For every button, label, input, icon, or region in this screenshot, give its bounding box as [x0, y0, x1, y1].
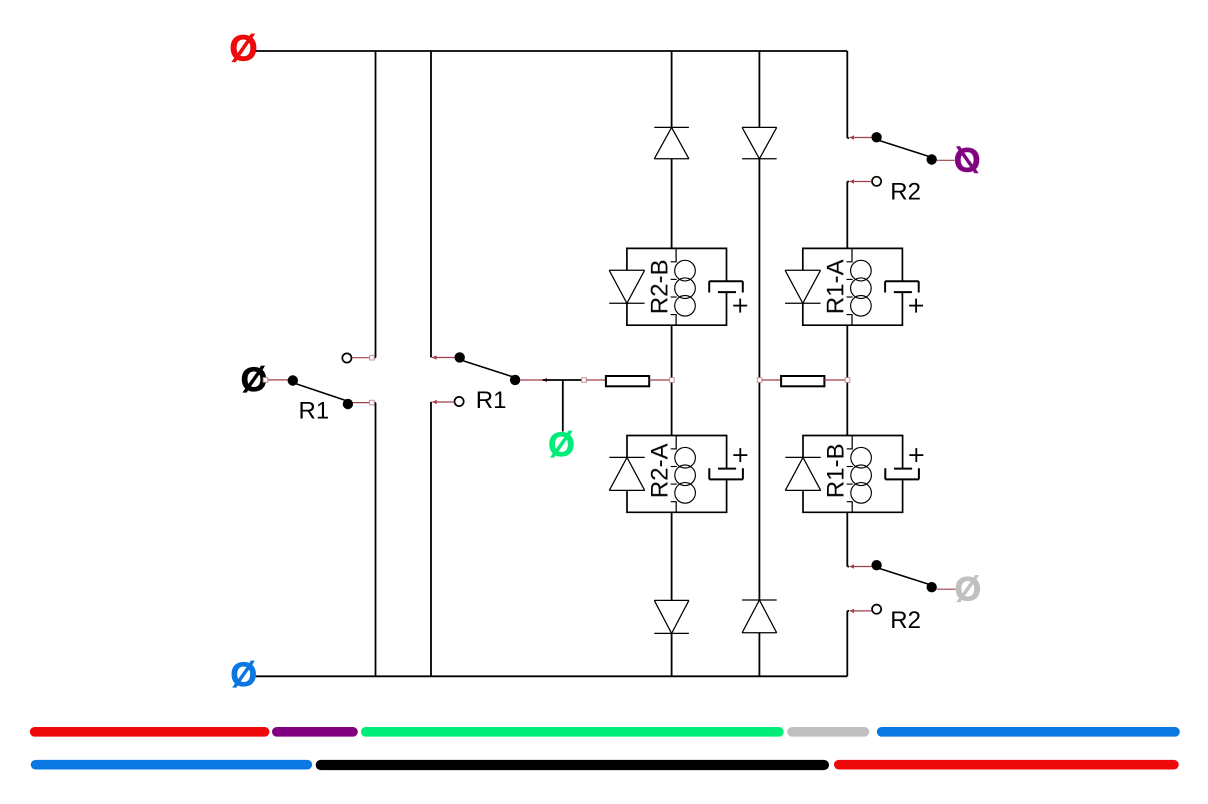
svg-text:R2-B: R2-B	[646, 259, 673, 314]
wire column E corner stub at S3 common	[847, 137, 849, 139]
svg-text:Ø: Ø	[229, 28, 257, 69]
svg-text:R2-A: R2-A	[647, 443, 674, 498]
wire junction to resistor chain	[543, 379, 585, 381]
wire column D rail to top diode	[758, 51, 760, 127]
resistor 1	[606, 376, 649, 386]
diode bottom right (pointing up)	[742, 599, 777, 601]
wire column D bottom diode to rail	[758, 633, 760, 677]
wire column E relay R1-B to switch S4	[846, 512, 848, 566]
switch S4 thrown contact	[927, 582, 937, 592]
node square on bus A lower	[370, 400, 375, 405]
wire column C bottom diode to rail	[671, 633, 673, 676]
svg-text:R1-A: R1-A	[822, 259, 849, 314]
svg-text:Ø: Ø	[955, 571, 981, 609]
node square on column C	[670, 378, 675, 383]
wire red stub resistor 2 to column E	[824, 379, 845, 381]
wire column E corner stub at S3 open contact	[847, 181, 849, 183]
relay R2-B flyback diode	[609, 269, 644, 271]
wire column E corner stub at S4 common	[847, 566, 849, 568]
wire red stub bus E to switch common (top)	[850, 135, 855, 139]
node square on column D	[757, 378, 762, 383]
legend bar blue (bottom row)	[31, 760, 312, 770]
switch S2 thrown contact	[510, 375, 520, 385]
diode top left (pointing up)	[654, 126, 689, 128]
switch S1 blade	[295, 383, 350, 402]
wire bus A upper vertical	[375, 51, 377, 358]
wire top supply rail	[256, 50, 848, 52]
legend bar gray	[787, 727, 869, 737]
relay R2-B capacitor	[709, 280, 743, 282]
relay R1-A capacitor	[885, 280, 919, 282]
wire column C relay R2-B to relay R2-A	[671, 325, 673, 435]
legend bar red (bottom row)	[834, 760, 1179, 770]
legend bar purple	[272, 727, 358, 737]
svg-text:R1-B: R1-B	[823, 443, 850, 498]
svg-text:Ø: Ø	[548, 426, 574, 464]
switch S2 blade	[462, 360, 517, 378]
relay R2-B box	[627, 248, 727, 325]
wire column D middle vertical	[758, 159, 760, 600]
resistor 2	[781, 376, 824, 386]
relay R1-A coil	[851, 248, 853, 261]
wire bus A upper stub	[372, 357, 376, 359]
switch S1 common contact	[288, 375, 298, 385]
diode bottom left (pointing down)	[654, 599, 689, 601]
relay R2-B polarity plus	[733, 305, 747, 307]
wire column C relay R2-A to bottom diode	[671, 512, 673, 600]
wire red stub bus B to switch common	[432, 355, 437, 359]
switch S4 blade	[878, 568, 933, 586]
wire column E S3 contact to relay R1-A	[846, 182, 848, 249]
relay R1-A box	[803, 248, 903, 325]
wire red stub open contact to bus B	[432, 400, 437, 404]
wire column E S4 contact to rail	[846, 611, 848, 676]
wire column C rail to top diode	[671, 51, 673, 127]
switch S2 open contact	[455, 397, 464, 406]
wire bus B upper vertical	[430, 51, 432, 358]
relay R1-B box	[803, 436, 903, 513]
node square on column E	[845, 378, 850, 383]
node phase symbol (gray)	[955, 571, 981, 609]
relay R2-A capacitor	[709, 478, 743, 480]
wire red stub thrown contact to bus A	[353, 402, 370, 404]
node L1 phase symbol (red)	[229, 28, 257, 69]
wire red stub open contact to bus E	[850, 609, 855, 613]
relay R1-A flyback diode	[785, 269, 820, 271]
wire bus A lower stub	[372, 402, 376, 404]
switch S2 common contact	[455, 352, 465, 362]
node phase symbol (purple, mirrored)	[954, 142, 980, 180]
wire red stub phase to switch common	[268, 379, 288, 381]
wire drop to green phase	[562, 380, 564, 432]
wire red stub to purple phase	[937, 159, 955, 161]
wire red stub resistor 1 to column C	[649, 379, 669, 381]
diode top right (pointing down)	[742, 126, 777, 128]
node square on bus A upper	[370, 355, 375, 360]
switch S3 blade	[878, 140, 933, 158]
node square at black phase	[263, 378, 268, 383]
relay R2-A flyback diode	[609, 456, 644, 458]
node N phase symbol (blue)	[230, 656, 256, 694]
switch S4 open contact	[872, 605, 881, 614]
wire red stub to resistor 1	[586, 379, 606, 381]
wire bus B lower vertical	[430, 402, 432, 677]
relay R1-A polarity plus	[909, 305, 923, 307]
svg-text:R2: R2	[890, 179, 921, 206]
node phase symbol (black)	[241, 361, 267, 399]
relay R1-B flyback diode	[785, 456, 820, 458]
wire column E rail to switch S3	[846, 51, 848, 138]
svg-text:Ø: Ø	[954, 142, 980, 180]
wire column E corner stub at S4 open contact	[847, 610, 849, 612]
legend bar red (L1)	[30, 727, 270, 737]
wire column E relay R1-A to relay R1-B	[846, 325, 848, 436]
wire red stub column D to resistor 2	[762, 379, 781, 381]
switch S1 open contact	[342, 353, 351, 362]
wire bottom supply rail	[256, 675, 848, 677]
wire bus A lower vertical	[375, 403, 377, 677]
svg-text:R1: R1	[299, 397, 330, 424]
relay R1-B capacitor	[885, 478, 919, 480]
switch S3 open contact	[872, 177, 881, 186]
relay R2-A coil	[675, 436, 677, 449]
node square left of resistor 1	[582, 378, 587, 383]
wire red stub open contact to bus E	[850, 179, 855, 183]
relay R1-B coil	[851, 436, 853, 449]
switch S1 thrown contact	[343, 399, 353, 409]
wire red stub thrown contact to node	[520, 379, 542, 381]
relay R2-A box	[627, 436, 727, 513]
switch S4 common contact	[871, 560, 881, 570]
legend bar blue (top row)	[877, 727, 1180, 737]
switch S3 common contact	[871, 132, 881, 142]
relay R2-A polarity plus	[733, 454, 747, 456]
node phase symbol (green)	[548, 426, 574, 464]
svg-text:R2: R2	[890, 607, 921, 634]
legend bar green	[361, 727, 784, 737]
switch S3 thrown contact	[927, 154, 937, 164]
svg-text:R1: R1	[476, 387, 507, 414]
relay R2-B coil	[675, 248, 677, 261]
svg-text:Ø: Ø	[230, 656, 256, 694]
wire red stub to gray phase	[937, 588, 956, 590]
legend bar black	[316, 760, 829, 770]
wire red stub open contact to bus A	[352, 357, 370, 359]
wire column C diode to relay R2-B	[671, 159, 673, 249]
relay R1-B polarity plus	[909, 454, 923, 456]
wire red stub bus E to switch common (bottom)	[850, 564, 855, 568]
